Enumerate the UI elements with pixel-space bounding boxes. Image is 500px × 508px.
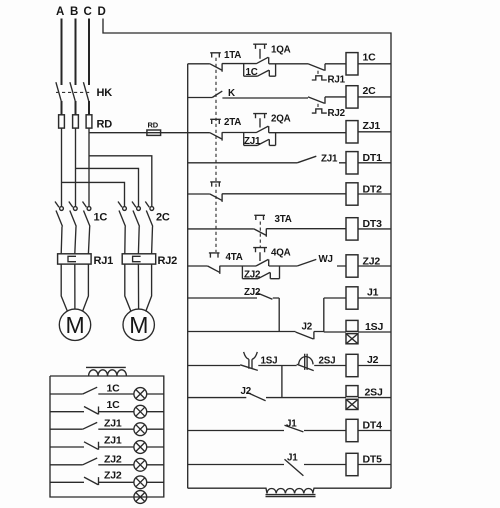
lamp HD5 — [134, 458, 147, 471]
svg-text:1C: 1C — [94, 212, 108, 224]
contact 1TA — [210, 53, 222, 72]
svg-text:M: M — [66, 312, 85, 338]
thermal relay RJ1 — [58, 254, 92, 264]
wire A below switch — [61, 101, 63, 115]
coil DT5 — [346, 453, 358, 475]
svg-text:J2: J2 — [302, 322, 313, 333]
rung 6 wire — [188, 228, 391, 230]
rung 4 wire — [188, 162, 391, 164]
contact ZJ1 lamp4 — [84, 442, 99, 450]
svg-text:DT1: DT1 — [363, 152, 383, 164]
svg-text:RD: RD — [97, 119, 113, 131]
svg-text:ZJ2: ZJ2 — [104, 453, 122, 465]
coil J2 — [346, 354, 358, 376]
transformer core line — [86, 366, 126, 368]
svg-text:RD: RD — [148, 120, 159, 129]
coil DT3 — [346, 218, 358, 240]
svg-text:2C: 2C — [363, 85, 377, 97]
time contact 1SJ — [240, 352, 258, 371]
svg-text:B: B — [70, 6, 78, 18]
coil 1C — [346, 53, 358, 75]
wire C below switch — [88, 101, 90, 115]
svg-text:J2: J2 — [367, 354, 379, 366]
svg-text:J1: J1 — [287, 453, 298, 464]
svg-text:3TA: 3TA — [275, 214, 292, 225]
contact ZJ2 lamp5 — [83, 458, 98, 465]
lamp rung 6 wire — [50, 481, 164, 483]
svg-text:1C: 1C — [363, 52, 377, 64]
coil 2C — [346, 86, 358, 108]
contact TA unlabeled — [210, 182, 222, 202]
svg-text:J1: J1 — [367, 287, 379, 299]
switch HK pole B — [70, 82, 75, 101]
lamp HD7 on bottom edge — [134, 491, 147, 504]
svg-text:HK: HK — [97, 87, 113, 99]
contactor 1C main contact pole2 — [69, 202, 77, 227]
svg-text:2TA: 2TA — [224, 117, 241, 128]
svg-text:2C: 2C — [156, 212, 170, 224]
contact ZJ2 NO — [257, 293, 273, 300]
thermal contact RJ1 — [308, 64, 327, 80]
contactor 1C main contact pole1 — [55, 202, 63, 227]
svg-text:DT3: DT3 — [363, 218, 383, 230]
coil 2SJ — [346, 386, 358, 397]
motor M1 — [59, 309, 90, 340]
svg-text:4TA: 4TA — [226, 252, 243, 263]
coil DT2 — [346, 183, 358, 205]
mechanical link dashed 3TA-4QA — [259, 222, 261, 249]
svg-text:4QA: 4QA — [271, 248, 291, 259]
fuse RD phase C — [86, 115, 92, 128]
svg-text:A: A — [56, 6, 64, 18]
lamp rung 4 wire — [50, 446, 164, 448]
contact J1 rung13 — [285, 459, 304, 476]
svg-text:RJ1: RJ1 — [328, 75, 346, 86]
wire elbow A to 2C branch — [62, 182, 125, 206]
svg-text:1C: 1C — [107, 383, 121, 395]
contact 1C lamp1 — [83, 387, 98, 394]
rung 12 wire — [188, 430, 391, 432]
svg-text:C: C — [83, 6, 91, 18]
wire phase A drop — [61, 19, 63, 86]
contact J2 — [296, 332, 314, 340]
svg-text:ZJ2: ZJ2 — [244, 270, 261, 281]
wire A fuse to contact — [61, 128, 63, 206]
svg-text:1SJ: 1SJ — [365, 321, 383, 333]
rung 9 wire — [188, 331, 391, 334]
svg-text:1C: 1C — [246, 67, 258, 78]
svg-text:2QA: 2QA — [271, 114, 291, 125]
transformer secondary winding — [89, 370, 127, 376]
lamp HD2 — [134, 405, 147, 418]
contactor 1C main contact pole3 — [83, 202, 91, 227]
wire B fuse to contact — [75, 128, 77, 206]
fuse RD phase A — [59, 115, 65, 128]
inductor core lines — [266, 495, 316, 497]
contactor 2C main contact pole1 — [118, 202, 126, 227]
svg-text:ZJ1: ZJ1 — [104, 418, 122, 430]
svg-text:ZJ1: ZJ1 — [363, 120, 381, 132]
contact 2TA — [210, 119, 222, 140]
contact WJ NO — [297, 259, 316, 266]
clutch symbol 2SJ — [346, 399, 358, 409]
lamp HD1 — [134, 388, 147, 401]
svg-text:ZJ2: ZJ2 — [104, 470, 122, 482]
wire C fuse to contact — [88, 128, 90, 206]
rung 10 wire — [188, 365, 391, 367]
svg-text:DT4: DT4 — [363, 420, 383, 432]
svg-text:WJ: WJ — [319, 254, 333, 265]
lamp HD6 — [134, 476, 147, 489]
fuse RD control — [147, 130, 161, 135]
rung 8 wire — [188, 297, 280, 299]
rung 7 wire — [188, 265, 391, 267]
motor M2 — [123, 309, 154, 340]
clutch symbol 1SJ — [346, 334, 358, 344]
time contact 2SJ — [297, 354, 314, 371]
self-hold contact ZJ2 branch — [242, 266, 279, 279]
svg-text:2SJ: 2SJ — [365, 387, 383, 399]
rung 3 wire — [188, 131, 391, 134]
lamp rung 1 wire — [50, 393, 164, 395]
svg-text:1QA: 1QA — [271, 45, 291, 56]
ladder bottom wire — [188, 488, 391, 493]
contact 3TA — [254, 215, 266, 237]
coil 1SJ — [346, 320, 358, 331]
svg-text:J1: J1 — [286, 419, 297, 430]
wire phase D to right rail — [103, 19, 391, 489]
lamp rung 5 wire — [50, 464, 164, 466]
svg-text:ZJ1: ZJ1 — [321, 154, 338, 165]
svg-text:DT2: DT2 — [363, 184, 383, 196]
coil ZJ1 — [346, 121, 358, 143]
svg-text:K: K — [228, 88, 235, 99]
pushbutton 4QA — [253, 248, 269, 266]
svg-text:1C: 1C — [107, 399, 121, 411]
fuse RD phase B — [73, 115, 79, 128]
switch HK pole A — [56, 82, 61, 101]
svg-text:J2: J2 — [241, 386, 252, 397]
thermal contact RJ2 — [308, 97, 327, 113]
svg-text:DT5: DT5 — [363, 454, 383, 466]
contact K — [212, 91, 222, 97]
wire rung10 drop — [281, 366, 283, 398]
thermal relay RJ2 — [122, 254, 156, 264]
wire rung8 drop — [278, 298, 280, 332]
lamp HD4 — [134, 441, 147, 454]
coil J1 — [346, 287, 358, 309]
svg-text:RJ1: RJ1 — [94, 255, 114, 267]
svg-text:RJ2: RJ2 — [328, 108, 346, 119]
svg-text:2SJ: 2SJ — [319, 356, 336, 367]
svg-text:M: M — [129, 312, 148, 338]
wire control feed from C — [89, 132, 188, 134]
inductor winding bottom — [267, 489, 313, 494]
wire phase B drop — [75, 19, 77, 86]
wire RJ1 to motor M1 — [61, 264, 88, 311]
wire contacts to RJ1 — [61, 227, 89, 254]
switch HK tie bar — [56, 91, 90, 93]
contact ZJ1 NO — [297, 156, 316, 163]
contact J2 rung11 — [247, 392, 266, 401]
pushbutton 1QA — [253, 44, 269, 64]
svg-text:ZJ1: ZJ1 — [244, 136, 261, 147]
contact ZJ1 lamp3 — [83, 422, 98, 429]
svg-text:RJ2: RJ2 — [158, 255, 178, 267]
contact J1 rung12 — [285, 425, 304, 432]
svg-text:1TA: 1TA — [224, 50, 241, 61]
lamp rung 3 wire — [50, 428, 164, 430]
contact 4TA — [208, 253, 220, 274]
switch HK pole C — [83, 82, 88, 101]
lamp box frame — [50, 376, 164, 497]
wire elbow C to 2C branch — [89, 156, 152, 207]
coil DT1 — [346, 152, 358, 174]
self-hold contact 1C branch — [244, 64, 276, 76]
coil ZJ2 — [346, 255, 358, 277]
svg-text:D: D — [97, 6, 105, 18]
wire phase C drop — [88, 19, 90, 86]
wire B below switch — [75, 101, 77, 115]
lamp HD3 — [134, 423, 147, 436]
left rail of ladder — [187, 64, 189, 488]
wire J1 coil feed — [324, 298, 391, 332]
contact 1C lamp2 — [84, 407, 99, 415]
contact ZJ2 lamp6 — [84, 477, 99, 485]
contactor 2C main contact pole3 — [145, 202, 153, 227]
contactor 2C main contact pole2 — [132, 202, 140, 227]
mechanical link dashed TA chain — [215, 58, 217, 252]
wire RJ2 to motor M2 — [125, 264, 152, 311]
svg-text:ZJ2: ZJ2 — [244, 287, 261, 298]
svg-text:1SJ: 1SJ — [261, 356, 278, 367]
rung 2 wire — [188, 97, 391, 98]
pushbutton 2QA — [253, 114, 269, 133]
svg-text:ZJ1: ZJ1 — [104, 434, 122, 446]
svg-text:ZJ2: ZJ2 — [363, 256, 381, 268]
lamp rung 2 wire — [50, 411, 164, 413]
rung 13 wire — [188, 464, 391, 466]
wire elbow B to 2C branch — [76, 168, 139, 206]
coil DT4 — [346, 419, 358, 441]
rung 11 wire — [188, 397, 391, 399]
self-hold contact ZJ1 branch — [244, 133, 276, 146]
wire contacts to RJ2 — [125, 227, 153, 254]
rung 1 wire — [188, 63, 391, 65]
rung 5 wire — [188, 193, 391, 195]
